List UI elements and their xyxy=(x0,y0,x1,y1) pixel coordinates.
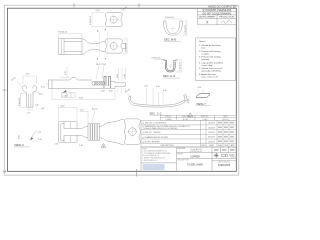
svg-text:A4: A4 xyxy=(3,169,7,173)
svg-text:10/05/19: 10/05/19 xyxy=(208,127,215,129)
dim right sec a-a xyxy=(176,60,182,72)
svg-text:0.90±0.05: 0.90±0.05 xyxy=(19,98,21,106)
svg-text:22/05/19: 22/05/19 xyxy=(208,132,215,134)
side serration coil xyxy=(92,81,105,85)
plan right tab xyxy=(122,43,125,48)
side bottom line xyxy=(52,88,115,90)
leader 0.30 crimp xyxy=(34,91,39,93)
svg-text:COPPER: COPPER xyxy=(190,156,200,158)
serration block xyxy=(88,124,100,141)
svg-text:0.50: 0.50 xyxy=(187,99,189,103)
leader R0.30 detail xyxy=(119,10,127,16)
dim 4.80 below side xyxy=(52,90,115,100)
svg-text:0.95: 0.95 xyxy=(19,135,21,139)
side body top line xyxy=(52,78,92,80)
sig smudges in rev table xyxy=(218,122,234,142)
svg-text:7.80±0.10: 7.80±0.10 xyxy=(58,32,68,34)
left bracket xyxy=(59,122,64,142)
svg-text:△3 DIM. NO. 7 ADDED: △3 DIM. NO. 7 ADDED xyxy=(142,131,161,134)
svg-text:DESCRIPTION: DESCRIPTION xyxy=(161,145,175,147)
svg-text:DESCRIPTION: DESCRIPTION xyxy=(177,159,189,161)
svg-text:0.45: 0.45 xyxy=(163,90,167,92)
svg-text:FINISH: FINISH xyxy=(177,154,183,156)
plan crosshair xyxy=(109,41,119,51)
svg-text:PRODUCTION: PRODUCTION xyxy=(219,17,234,19)
sec b-b center cross xyxy=(170,26,175,31)
crimp wings xyxy=(23,85,27,92)
svg-text:30/07/19: 30/07/19 xyxy=(208,137,215,139)
signature xyxy=(221,21,232,24)
svg-text:0.60: 0.60 xyxy=(117,74,119,78)
svg-text:VIEW-Y: VIEW-Y xyxy=(196,102,206,106)
svg-text:IF IN DOUBT, PLEASE ASK: IF IN DOUBT, PLEASE ASK xyxy=(203,9,232,12)
title block left note text xyxy=(142,148,172,162)
plan eyelet circle xyxy=(110,43,117,50)
wing bottom xyxy=(64,136,77,143)
section line A xyxy=(99,33,101,57)
projection symbol 1 xyxy=(214,153,219,158)
svg-text:terminal.: terminal. xyxy=(202,58,211,61)
tick left xyxy=(2,89,6,91)
svg-text:APPD BY: APPD BY xyxy=(201,115,209,118)
tick top 1 xyxy=(73,3,75,7)
svg-text:R0.2 (TYP): R0.2 (TYP) xyxy=(96,64,106,66)
svg-text:(C5191) t=0.25: (C5191) t=0.25 xyxy=(190,150,202,153)
svg-text:Notes:-: Notes:- xyxy=(199,40,206,43)
neck xyxy=(77,126,88,128)
table mid vertical xyxy=(216,15,218,25)
svg-text:as per dwg.: as per dwg. xyxy=(202,64,214,67)
bottom crosshair xyxy=(127,126,138,137)
svg-text:1.30±0.05: 1.30±0.05 xyxy=(180,61,182,71)
svg-text:SEC. A-A: SEC. A-A xyxy=(163,74,175,78)
svg-text:6. Applicable wire: 6. Applicable wire xyxy=(199,73,217,76)
svg-text:size:- 0.50 - 0.75: size:- 0.50 - 0.75 xyxy=(202,77,219,79)
leader R0.30 sec c-c xyxy=(127,93,131,97)
outer frame xyxy=(4,5,239,175)
section flag A top xyxy=(97,29,107,60)
svg-text:△1 DIM 1.90 & 0.95 REVISED: △1 DIM 1.90 & 0.95 REVISED xyxy=(142,122,167,125)
dim 4.80 right of plan xyxy=(123,39,128,53)
gdt arrow xyxy=(62,90,67,93)
eyelet crosshair xyxy=(109,15,119,25)
dim 0.25 left above side xyxy=(60,66,70,77)
svg-text:0.20: 0.20 xyxy=(198,87,202,89)
svg-text:DATE: DATE xyxy=(209,144,215,147)
svg-text:0.30: 0.30 xyxy=(39,94,43,96)
projection symbol 2 xyxy=(222,154,228,157)
svg-text:K09504C05: K09504C05 xyxy=(218,165,231,167)
svg-text:NTS 5:1: NTS 5:1 xyxy=(231,156,237,158)
svg-text:VIEW-X: VIEW-X xyxy=(14,143,24,147)
svg-text:4.30±0.10: 4.30±0.10 xyxy=(90,15,92,25)
side right tabs xyxy=(104,76,111,88)
sec a-a cross xyxy=(168,64,172,68)
serration hatch xyxy=(89,124,91,141)
svg-text:1.70: 1.70 xyxy=(27,112,31,114)
tick top 2 xyxy=(138,3,140,7)
svg-text:0.60: 0.60 xyxy=(109,91,113,93)
svg-text:0.90±0.05 WAS 0.85±0.05, LOGO: 0.90±0.05 WAS 0.85±0.05, LOGO ADDED xyxy=(144,127,179,130)
svg-text:16/04/19: 16/04/19 xyxy=(208,123,215,125)
svg-text:MADE ON COMPUTER: MADE ON COMPUTER xyxy=(208,5,236,8)
plan eyelet clover xyxy=(105,39,122,53)
svg-text:8-0.25: 8-0.25 xyxy=(92,109,97,111)
rev triangle above table xyxy=(188,113,193,117)
svg-text:4. BURR MAX 0.03: 4. BURR MAX 0.03 xyxy=(142,159,157,162)
svg-text:1.05: 1.05 xyxy=(35,104,39,106)
crimp body rect xyxy=(27,93,34,108)
svg-text:SEC. C-C: SEC. C-C xyxy=(150,111,162,115)
table bottom line xyxy=(198,24,237,26)
svg-text:burr.: burr. xyxy=(202,47,207,50)
svg-text:1.40: 1.40 xyxy=(79,145,83,147)
rev header row xyxy=(161,144,236,147)
gdt feature control frame xyxy=(62,93,76,98)
svg-text:CAT.GLOBL NO.: CAT.GLOBL NO. xyxy=(218,161,231,164)
side left tab xyxy=(49,80,53,89)
section line B xyxy=(107,32,109,57)
svg-text:2.05: 2.05 xyxy=(55,144,59,146)
svg-text:11/09/19: 11/09/19 xyxy=(208,141,215,143)
table row line 3 xyxy=(198,18,237,20)
tick bottom xyxy=(136,169,138,177)
svg-text:0.60: 0.60 xyxy=(156,86,160,88)
svg-text:DEVELOPMENT: DEVELOPMENT xyxy=(199,17,216,19)
table row line 2 xyxy=(198,14,237,16)
svg-text:△4 CHAMFER ADDED IN VIEW: △4 CHAMFER ADDED IN VIEW xyxy=(142,136,168,139)
dims right of side view xyxy=(119,68,126,81)
sig cells top right xyxy=(214,149,235,151)
svg-text:= .05 A: = .05 A xyxy=(62,94,68,97)
svg-text:MATERIAL: MATERIAL xyxy=(177,147,185,150)
eyelet circle xyxy=(110,16,117,23)
svg-text:4.80±0.10: 4.80±0.10 xyxy=(125,42,127,52)
leader R0.30 crimp xyxy=(17,82,23,88)
blue logo smudge xyxy=(143,164,165,170)
bottom eyelet circle xyxy=(129,128,137,136)
notes text xyxy=(199,40,224,78)
svg-text:1.80±0.05: 1.80±0.05 xyxy=(185,24,187,34)
svg-text:1.30: 1.30 xyxy=(144,86,148,88)
svg-text:specially at bending.: specially at bending. xyxy=(202,70,222,73)
eyelet clover outline xyxy=(105,13,122,27)
dim 0.90 left of crimp body xyxy=(20,94,26,108)
dim right sec b-b xyxy=(183,21,187,35)
svg-text:TS-53FL HARD: TS-53FL HARD xyxy=(187,163,203,166)
svg-text:S.SEN: S.SEN xyxy=(202,119,208,121)
table row line 1 xyxy=(198,11,237,13)
inner frame xyxy=(7,8,236,171)
revision rows text xyxy=(142,122,190,144)
plan neck wavy xyxy=(82,39,105,44)
plan left box xyxy=(59,39,83,55)
wing top xyxy=(64,122,77,129)
dim right sec c-c xyxy=(188,96,190,105)
dim 4.30 left of detail xyxy=(92,13,105,27)
svg-text:1.15: 1.15 xyxy=(38,132,42,134)
svg-text:0.60: 0.60 xyxy=(101,91,105,93)
svg-text:coupler.: coupler. xyxy=(202,52,210,55)
svg-text:△5 NOTE 6 REVISED: △5 NOTE 6 REVISED xyxy=(142,141,160,144)
dims above sec c-c xyxy=(147,88,164,105)
svg-text:1.90±0.05: 1.90±0.05 xyxy=(165,17,175,19)
svg-text:DO NOT SCALE DRAWING: DO NOT SCALE DRAWING xyxy=(203,12,232,15)
dims below pin xyxy=(118,88,125,94)
datum triangle A below xyxy=(101,144,105,148)
transition to eyelet xyxy=(100,119,125,126)
svg-text:SEC. B-B: SEC. B-B xyxy=(164,38,176,42)
svg-text:1.45: 1.45 xyxy=(124,74,126,78)
table left border xyxy=(197,8,199,25)
svg-text:DRN: DRN xyxy=(218,145,223,147)
side pin xyxy=(111,82,126,89)
svg-text:0.95±0.05: 0.95±0.05 xyxy=(152,58,162,60)
dim 1.70 below crimp xyxy=(27,109,34,111)
svg-text:1.45: 1.45 xyxy=(38,139,42,141)
bottom eyelet clover xyxy=(124,119,140,144)
